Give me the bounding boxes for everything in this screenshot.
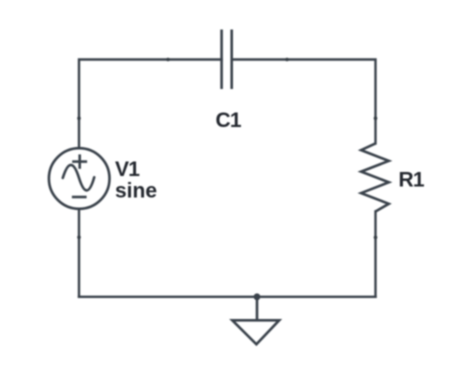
ground junction node bbox=[254, 293, 261, 300]
wire top-left segment bbox=[79, 60, 222, 149]
pin dot C1 left bbox=[166, 58, 170, 62]
capacitor C1 bbox=[222, 30, 232, 90]
pin dot V1 top bbox=[77, 117, 81, 121]
pin dot C1 right bbox=[285, 58, 289, 62]
svg-text:sine: sine bbox=[115, 180, 157, 203]
svg-text:R1: R1 bbox=[399, 169, 425, 192]
voltage source V1 bbox=[49, 148, 110, 209]
svg-text:V1: V1 bbox=[115, 158, 140, 181]
ground symbol triangle bbox=[232, 320, 279, 344]
resistor R1 bbox=[361, 143, 389, 211]
pin dot V1 bottom bbox=[77, 236, 81, 240]
pin dot R1 top bbox=[374, 117, 378, 121]
wire top-right segment bbox=[232, 60, 376, 144]
wire left-lower segment bbox=[78, 209, 80, 297]
pin dot R1 bottom bbox=[374, 236, 378, 240]
ground stub wire bbox=[256, 297, 259, 320]
wire right-lower segment bbox=[374, 212, 376, 297]
svg-text:C1: C1 bbox=[216, 109, 242, 132]
wire bottom segment bbox=[79, 296, 376, 298]
